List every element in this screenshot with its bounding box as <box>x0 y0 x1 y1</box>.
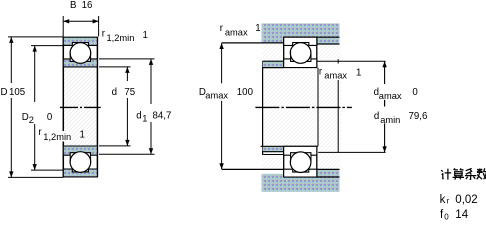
outer ring (top section) <box>63 37 97 45</box>
svg-text:D: D <box>22 112 29 123</box>
svg-text:2: 2 <box>29 115 34 125</box>
svg-text:14: 14 <box>455 209 468 221</box>
Damax dimension line <box>219 43 223 169</box>
svg-text:0: 0 <box>47 112 53 123</box>
d dimension line <box>99 67 131 146</box>
B dimension line <box>63 16 98 37</box>
D dimension line <box>8 37 63 178</box>
d1 dimension line <box>99 59 155 154</box>
svg-text:105: 105 <box>9 87 25 98</box>
svg-text:79,6: 79,6 <box>409 111 428 122</box>
damin extension line (bottom) <box>318 151 385 153</box>
svg-text:amax: amax <box>379 91 402 101</box>
shaft step vertical 2 <box>337 59 339 152</box>
damax dimension arrow <box>382 61 386 106</box>
char suan <box>453 168 464 179</box>
shaft left edge <box>262 61 264 155</box>
char ji <box>441 169 451 180</box>
svg-text:amin: amin <box>380 115 400 125</box>
svg-text:0: 0 <box>412 87 418 98</box>
svg-text:0: 0 <box>444 213 449 222</box>
housing block (bottom) <box>262 170 340 192</box>
cage lines (top section) <box>69 52 71 59</box>
char xi <box>465 168 476 179</box>
shaft hatch (right view) <box>263 44 342 169</box>
ramax label (middle) white backing <box>319 64 362 81</box>
svg-text:r: r <box>102 29 106 40</box>
housing seat line (top) <box>284 36 340 38</box>
housing seat line (bottom) <box>284 176 340 178</box>
svg-text:1,2min: 1,2min <box>107 33 135 43</box>
ball (bottom section) <box>70 152 91 173</box>
bearing outline (right bottom, white section) <box>284 146 317 177</box>
char shu <box>477 168 486 179</box>
svg-text:d: d <box>112 87 117 98</box>
damin dimension arrow <box>382 123 386 152</box>
svg-text:1,2min: 1,2min <box>43 132 71 142</box>
ball (top section) <box>70 43 91 64</box>
svg-text:1: 1 <box>255 23 260 34</box>
damax extension line (shoulder top plane) <box>317 60 386 62</box>
svg-text:k: k <box>440 194 446 206</box>
svg-text:d: d <box>374 111 379 122</box>
svg-text:16: 16 <box>82 0 93 11</box>
centerline (left view axis) <box>60 106 101 108</box>
svg-text:0,02: 0,02 <box>455 194 477 206</box>
svg-text:100: 100 <box>237 87 254 98</box>
housing block (top) <box>262 23 340 44</box>
svg-text:1: 1 <box>142 114 147 124</box>
svg-text:75: 75 <box>124 87 135 98</box>
inner ring (bottom section) <box>63 146 97 155</box>
centerline (right view axis) <box>255 106 352 108</box>
shaft shoulder (top, damax) <box>263 61 284 67</box>
Damax extension line (top) <box>222 42 284 44</box>
outer ring (bottom section) <box>63 169 97 177</box>
cage lines (bottom section) <box>69 155 71 162</box>
svg-text:D: D <box>1 87 8 98</box>
svg-text:84,7: 84,7 <box>153 111 172 122</box>
svg-text:1: 1 <box>356 67 361 78</box>
r12min label (bottom) white backing <box>43 131 72 142</box>
inner ring (top section) <box>63 59 97 67</box>
shaft shoulder (bottom, damin) <box>263 146 284 151</box>
shaft step vertical 1 <box>317 68 319 146</box>
svg-text:r: r <box>220 23 224 34</box>
bearing outline (right top, white section) <box>284 37 317 67</box>
bearing side face right <box>96 37 98 177</box>
D2 dimension line <box>31 46 65 171</box>
svg-text:amax: amax <box>324 70 347 80</box>
Damax extension + housing shoulder line (bottom) <box>222 168 340 170</box>
svg-text:1: 1 <box>143 30 148 41</box>
housing shoulder surface line (top) <box>317 43 340 45</box>
svg-text:amax: amax <box>205 91 228 101</box>
svg-text:d: d <box>136 111 141 122</box>
svg-text:1: 1 <box>80 130 85 141</box>
svg-text:r: r <box>38 127 42 138</box>
svg-text:r: r <box>447 197 450 206</box>
damin shoulder plane line (bottom) <box>263 154 284 156</box>
bearing side face left <box>62 37 64 177</box>
svg-text:B: B <box>70 0 76 11</box>
bore hatch (left view middle) <box>64 68 97 146</box>
heading (Chinese: calculation factors) <box>441 168 486 179</box>
svg-text:amax: amax <box>225 28 248 38</box>
